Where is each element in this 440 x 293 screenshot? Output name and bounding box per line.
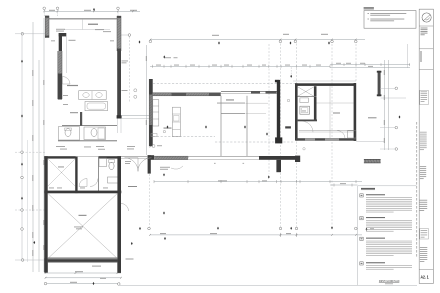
garage bottom dimension lines [45, 272, 121, 274]
wall: kitchen west exterior [149, 79, 152, 146]
grid stub x129 [121, 34, 128, 36]
hall door arcs [79, 179, 87, 187]
master bath tub [85, 102, 108, 111]
titleblock block 4 [420, 199, 428, 202]
garage side stubs [44, 258, 47, 272]
vertical grid dashed x=149.5 [149, 174, 151, 227]
vertical grid dashed x=332 [331, 44, 333, 226]
small marks near lower wing [49, 187, 54, 190]
wc room right [84, 127, 106, 140]
wall: lower wing north segment 2 [99, 156, 122, 158]
interior wall foyer west [220, 96, 222, 156]
wall: porch thin segment [188, 155, 259, 157]
wall: lower wing west [44, 156, 47, 272]
keynote diamond great room 3 [244, 125, 246, 128]
roof dashed line upper [153, 83, 296, 85]
kitchen label circle [152, 145, 155, 148]
general notes item 2 [368, 18, 369, 21]
keynote 2 [360, 217, 363, 220]
keynote diamond bottom f [366, 228, 368, 231]
vertical ties right dim [407, 44, 409, 68]
closet band right wing [299, 129, 354, 131]
wall: side porch bar [364, 159, 381, 163]
general notes item 1 [368, 12, 369, 15]
labels between wings [122, 60, 129, 63]
grid ticks top [43, 10, 45, 16]
keynote diamond porch dim2 [163, 211, 165, 214]
wall cap center bottom [275, 137, 282, 143]
wic room x-shelving [48, 159, 75, 186]
wall: master bed west window band [45, 16, 49, 38]
pantry x-brace [298, 87, 314, 97]
grid bubble B4 [331, 40, 334, 43]
wall: right wing south [296, 138, 356, 141]
svg-text:A2. 1: A2. 1 [421, 274, 429, 280]
vertical grid dashed x=280.5 [280, 44, 282, 228]
window hatch blocks on north wall [172, 93, 187, 96]
keynote diamond bottom a [139, 227, 141, 230]
grid bubble B1 [149, 40, 152, 43]
wall: main north wall band (kitchen segment) [153, 93, 222, 96]
hall north lines [121, 115, 149, 117]
keynote 1 [360, 194, 363, 197]
left grid bubbles [21, 33, 24, 36]
titleblock block 5 [420, 246, 427, 249]
room label MASTER BATH [67, 85, 78, 86]
wall: closet L corner [59, 33, 67, 36]
sheet bottom border line [119, 284, 417, 286]
wall: main north wall band (foyer segment) [221, 91, 277, 93]
titleblock cell box [420, 229, 429, 240]
vertical grid dashed x=269 [268, 44, 270, 174]
left short dim segment y185 [330, 184, 358, 186]
grid bubble top 2 [56, 7, 59, 10]
annotation row y146-150 [56, 145, 65, 148]
wall: east core wall x118 [117, 51, 121, 119]
built-in right wing corner [348, 131, 357, 138]
keynotes left border [357, 186, 359, 285]
master bath door arc [63, 77, 71, 85]
titleblock issue block [420, 131, 427, 134]
vertical grid dashed x=296.5 [296, 44, 298, 228]
titleblock divider 3 [419, 69, 433, 71]
door arc east wing [121, 204, 129, 212]
titleblock divider 2 [419, 48, 433, 50]
left dimension strings [26, 140, 28, 262]
keynote diamond great room 1 [167, 125, 169, 128]
left keynote diamonds [21, 60, 23, 63]
right grid bubbles [380, 87, 396, 89]
grid bubble garage bl [44, 282, 47, 285]
label SIDE YARD [368, 117, 377, 118]
line from fence [381, 97, 406, 99]
titleblock outer frame [419, 9, 433, 283]
wall: right wing east [354, 83, 357, 141]
grid bubble B2 [279, 40, 282, 43]
label wic [58, 166, 64, 169]
right room interior lines [317, 102, 354, 104]
keynote diamond r2 [218, 41, 220, 44]
wall: lower wing east [117, 156, 121, 273]
wall: laundry south [298, 120, 317, 122]
master bath vanity [79, 91, 107, 100]
left grid stub lines [15, 33, 45, 35]
logo circle [422, 13, 431, 22]
label entry [128, 186, 137, 187]
bath south wall [58, 140, 117, 142]
keynote diamond center low [266, 132, 268, 135]
wc room left [59, 127, 80, 141]
left rotated dim texts [32, 70, 33, 76]
door circle right [287, 99, 290, 102]
keynote diamond great room 2 [205, 125, 207, 128]
door head lines lower wing [76, 156, 99, 158]
annotation texts upper-left [56, 28, 65, 31]
grid bubble bottom 2 [279, 227, 282, 230]
keynote diamond r4 [328, 41, 330, 44]
kitchen island [172, 107, 180, 136]
general notes header [364, 7, 374, 8]
texts near tub [63, 94, 68, 97]
titleblock consultant box [420, 90, 429, 104]
entry wall thin [121, 155, 148, 157]
pantry south line [298, 96, 317, 98]
keynote diamond garage [93, 282, 95, 285]
titleblock address lines [421, 27, 428, 30]
wall: porch east segment [259, 156, 300, 160]
top dimension line [44, 10, 140, 12]
right dimension strings [384, 60, 386, 150]
titleblock vertical text at sheet edge [415, 122, 418, 125]
wall: stair west [295, 83, 298, 140]
keynote diamond top [93, 8, 95, 11]
laundry fixtures [300, 98, 308, 103]
kitchen counter west [153, 100, 159, 126]
wall: porch column tee [276, 160, 281, 172]
wall: two-story center wall [277, 80, 280, 141]
small circle porch area [303, 148, 305, 150]
label right room [333, 113, 340, 114]
wall: bath2 west [98, 157, 100, 192]
wall: bath room divider [80, 112, 82, 126]
keynote diamond porch dim [163, 173, 165, 176]
dim text row y41 [51, 39, 55, 42]
grid bubble top 1 [43, 7, 46, 10]
right keynote diamond [399, 115, 401, 118]
grid bubble top 3 [117, 7, 120, 10]
titleblock logo box [419, 8, 433, 10]
wall: porch end cap [295, 156, 300, 162]
annotation center [217, 102, 245, 105]
grid bubble garage br [118, 283, 121, 286]
keynote 4 [360, 262, 363, 265]
titleblock divider above sheet no [419, 268, 433, 270]
bedroom interior lines [65, 37, 67, 74]
grid bubble bottom 1 [148, 227, 151, 230]
main upper dimension line (right wing) [150, 39, 365, 41]
wall: east fence bar [378, 71, 381, 96]
roof dashed line lower [153, 136, 215, 138]
room label closet [69, 40, 76, 41]
general notes box [364, 11, 416, 29]
grid bubble bottom 3 [295, 227, 298, 230]
grid line column A (left vertical) [21, 32, 23, 260]
wall: garage south header [48, 257, 118, 262]
wall: garage north [44, 191, 121, 194]
keynotes header [361, 188, 375, 189]
keynote diamond bottom e [331, 226, 333, 229]
porch dim line ticks [153, 180, 155, 183]
entry door arcs [125, 158, 139, 172]
keynote diamond r3 [290, 41, 292, 44]
label GREAT ROOM [226, 99, 234, 100]
porch dimension line [154, 181, 362, 183]
room label MASTER BED [88, 24, 98, 25]
keynote diamond r1 [139, 40, 141, 43]
grid bubble B3 [294, 40, 297, 43]
upper exterior dimension line [150, 65, 330, 67]
keynotes top border [358, 185, 417, 187]
wall: porch hatched segment [154, 156, 188, 159]
wall: master bed north [49, 17, 117, 19]
keynote diamond below dim [290, 75, 292, 78]
keynote diamond bottom b [164, 237, 166, 240]
wall: master bed east window band [117, 16, 121, 51]
eave line right wing [293, 80, 356, 82]
foyer east stub wall [285, 126, 291, 128]
titleblock vertical label [420, 51, 421, 62]
dim string x146.5 [146, 45, 148, 155]
keynote diamond bottom c [217, 227, 219, 230]
wall: wic east [75, 157, 77, 194]
keynote diamond porch [268, 175, 270, 178]
right door arcs [302, 121, 313, 132]
titleblock project block [420, 165, 426, 168]
wall: pantry east [314, 86, 317, 120]
grid bubble bottom 4 [355, 227, 358, 230]
closet line master bed [64, 29, 110, 31]
svg-text:FIRST FLOOR PLAN: FIRST FLOOR PLAN [379, 279, 399, 283]
keynote 3 [360, 237, 363, 240]
grid bubble B5 [355, 40, 358, 43]
wall: right wing north [295, 83, 356, 86]
bath2 fixtures [99, 158, 107, 167]
vertical grid dashed x=356 [355, 44, 357, 82]
label garage door [92, 266, 101, 267]
interior wall foyer east [246, 96, 248, 156]
label KITCHEN [164, 128, 172, 129]
garage x-brace [48, 194, 117, 258]
wall: porch west corner [148, 155, 155, 160]
annotation left of porch [160, 166, 170, 169]
keynote diamond above dim [163, 55, 165, 58]
column circles mid [134, 89, 137, 92]
wall: lower wing north [44, 156, 75, 158]
wall: west corridor wall band [58, 51, 62, 99]
wall cap center top [275, 80, 280, 83]
keynote diamond bottom d [290, 227, 292, 230]
label garage [79, 215, 87, 216]
upper exterior dim line right segment [330, 64, 410, 66]
bottom main dimension line [150, 234, 362, 236]
